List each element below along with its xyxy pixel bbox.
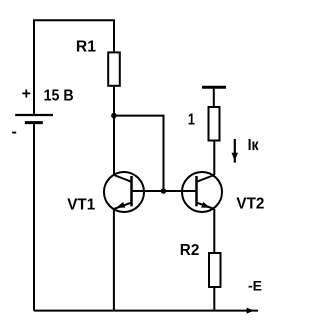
svg-text:1: 1 (188, 112, 195, 129)
svg-text:R2: R2 (180, 242, 200, 259)
svg-text:-E: -E (248, 277, 262, 293)
svg-text:VT2: VT2 (236, 196, 264, 213)
svg-text:+: + (22, 86, 31, 103)
svg-text:R1: R1 (76, 38, 96, 55)
svg-text:VT1: VT1 (67, 196, 95, 213)
svg-text:Iк: Iк (248, 137, 260, 154)
svg-text:-: - (12, 123, 17, 140)
svg-text:15 В: 15 В (44, 88, 74, 105)
